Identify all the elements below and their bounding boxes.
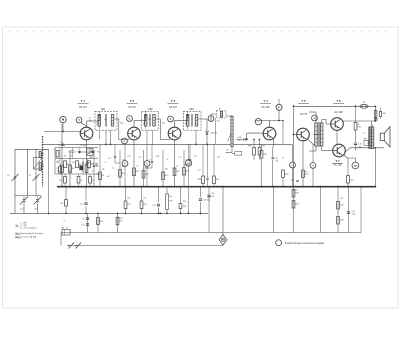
svg-text:C14: C14 (122, 160, 125, 162)
svg-text:470: 470 (305, 172, 308, 174)
wire output top rail (294, 105, 376, 107)
variable capacitor C1a (20, 197, 28, 211)
svg-text:R29: R29 (261, 145, 265, 147)
wire C28 to T4 base (246, 133, 264, 140)
svg-text:T 1: T 1 (81, 99, 86, 103)
svg-text:AF 127: AF 127 (79, 106, 87, 109)
svg-text:Tensioni rilevate in assenza d: Tensioni rilevate in assenza di segnale (285, 242, 325, 245)
label T4 (260, 99, 271, 109)
IF transformer FE1 (95, 109, 117, 130)
svg-text:B9: B9 (363, 102, 365, 104)
wire pot wiper to C28 (236, 138, 243, 140)
resistor R17 (142, 171, 149, 179)
svg-text:C2: C2 (60, 142, 62, 144)
resistor R31 (260, 144, 267, 186)
wire E1 stub (124, 144, 126, 186)
capacitor C22 (184, 144, 191, 165)
resistor R39 (292, 201, 299, 209)
wire T3 emitter (174, 140, 176, 187)
wire x125 stub2 (125, 186, 127, 214)
test point H1 (290, 162, 296, 168)
svg-text:C25: C25 (217, 121, 220, 123)
wire T3 collector to FE3 (175, 114, 188, 128)
svg-text:R28: R28 (248, 145, 252, 147)
oscillator box L4 (87, 149, 94, 156)
capacitor C11 electrolytic (80, 203, 88, 206)
resistor R9 (99, 172, 105, 180)
test point E1 (122, 161, 128, 167)
capacitor C28 (238, 137, 246, 142)
wire L5 sec bottom to T7 (322, 146, 333, 151)
volume pot R24 (227, 117, 234, 152)
battery meter diamond (219, 235, 227, 245)
svg-text:R36: R36 (305, 174, 309, 176)
mixer text b (57, 171, 94, 173)
svg-text:L7: L7 (363, 133, 365, 135)
test point F1 (276, 104, 282, 110)
wire x86 stub2 (85, 187, 87, 214)
transistor T4 (263, 127, 276, 140)
wire x104 drop (99, 130, 107, 145)
svg-text:T 2: T 2 (130, 99, 135, 103)
capacitor C34 (291, 180, 299, 182)
svg-text:C34: C34 (291, 180, 294, 182)
svg-text:GB: GB (354, 165, 358, 167)
svg-text:1k8: 1k8 (119, 218, 122, 220)
resistor R12 (119, 170, 126, 178)
svg-text:R48: R48 (340, 220, 343, 222)
svg-text:5k6: 5k6 (127, 198, 130, 200)
svg-text:10k: 10k (169, 196, 172, 198)
wire x120 drop (119, 150, 121, 187)
svg-text:1n: 1n (92, 171, 94, 173)
resistor R47 (347, 168, 354, 187)
svg-text:C9: C9 (87, 150, 89, 152)
test point H2 (310, 163, 316, 169)
resistor R10b (97, 218, 104, 225)
oscillator coil L3 box (34, 158, 43, 170)
capacitor C24 (206, 144, 208, 186)
svg-text:R10: R10 (100, 221, 103, 223)
svg-text:R20: R20 (169, 201, 172, 203)
resistor R3 (64, 161, 70, 168)
label m1 (64, 220, 66, 222)
svg-text:FE1: FE1 (101, 109, 106, 111)
wire x338 drop2 (337, 186, 339, 233)
wire x117 drop2 (117, 213, 119, 232)
test point GB (352, 162, 359, 169)
wire x361 drop2 (360, 187, 362, 233)
svg-text:G: G (313, 116, 315, 120)
wire supply line A (61, 232, 361, 234)
wire coil taps (42, 154, 45, 187)
legend band I (21, 222, 27, 224)
svg-text:C4 180p: C4 180p (58, 145, 65, 147)
speaker LS (380, 127, 390, 147)
svg-text:C10: C10 (81, 225, 84, 227)
resistor R38 (292, 190, 299, 198)
trimmer capacitor C1 (7, 174, 19, 181)
wire x163 drop (162, 150, 164, 187)
svg-text:R19: R19 (165, 175, 168, 177)
svg-text:R4: R4 (72, 168, 74, 170)
resistor R41 (354, 105, 361, 141)
IF transformer FE2 (142, 109, 159, 130)
svg-text:0,1: 0,1 (186, 160, 189, 162)
resistor R29 (258, 139, 265, 160)
test point B1 (76, 117, 82, 123)
transistor T2 (128, 127, 141, 140)
resistor R48 (337, 217, 344, 225)
svg-text:B: B (129, 116, 131, 120)
svg-text:39k: 39k (56, 162, 59, 164)
wire mixer left (54, 148, 56, 175)
test point E2 (144, 161, 150, 167)
wire gang cap legs (15, 196, 38, 214)
svg-text:330: 330 (165, 169, 168, 171)
resistor R16 (140, 201, 147, 209)
wire T6 collector (343, 120, 376, 126)
resistor R19 (162, 172, 169, 180)
wire x215 drop (215, 118, 217, 144)
svg-text:R39: R39 (295, 204, 298, 206)
wire AGC rail (10, 212, 208, 214)
svg-text:C15: C15 (138, 157, 141, 159)
svg-text:2k2: 2k2 (143, 198, 146, 200)
svg-text:R46: R46 (340, 205, 343, 207)
svg-text:II - MO: II - MO (21, 225, 28, 227)
resistor R25 (198, 144, 205, 186)
wire F1 drop (278, 99, 280, 121)
wire FL link (211, 114, 232, 122)
scan texture dotted row (8, 31, 390, 33)
wire FE2 out to T3 (159, 119, 171, 140)
wire x94 drop (93, 150, 95, 187)
svg-text:R43: R43 (383, 113, 386, 115)
svg-text:R12: R12 (122, 173, 125, 175)
wire T5 collector (307, 139, 315, 145)
resistor R44 box (364, 139, 369, 146)
resistor R33 (282, 170, 289, 187)
svg-text:C3: C3 (74, 151, 76, 153)
wire L5 primary top (309, 112, 316, 123)
svg-text:GA 100: GA 100 (211, 131, 219, 134)
svg-text:82k: 82k (186, 164, 189, 166)
wire x158 stub2 (158, 187, 160, 215)
svg-text:4n7: 4n7 (198, 170, 201, 172)
svg-text:AC 125: AC 125 (262, 106, 271, 109)
svg-text:R7: R7 (88, 168, 90, 170)
resistor R1 (54, 149, 59, 157)
svg-text:R30: R30 (183, 206, 186, 208)
svg-text:R23: R23 (186, 171, 189, 173)
svg-text:R15: R15 (136, 171, 139, 173)
wire T4 collector (255, 121, 283, 128)
svg-text:H: H (312, 163, 314, 167)
capacitor C40 (354, 143, 362, 151)
resistor R8b (60, 200, 67, 207)
svg-text:9-4: 9-4 (87, 153, 90, 155)
svg-text:C11: C11 (80, 203, 83, 205)
wire T1 collector to FE1 (87, 114, 100, 128)
mixer text c (57, 157, 93, 163)
svg-text:8k2: 8k2 (145, 167, 148, 169)
svg-text:1k: 1k (92, 180, 94, 182)
svg-text:R16: R16 (143, 204, 146, 206)
legend TA1 (15, 232, 43, 235)
wire diode down (206, 134, 208, 145)
value text row (56, 118, 362, 220)
wire audio rail (42, 143, 292, 145)
svg-text:C1b: C1b (34, 209, 38, 211)
transistor T3 (168, 127, 181, 140)
label T5 (298, 99, 309, 116)
legend Bd (16, 225, 28, 227)
driver transformer L5 (315, 122, 323, 147)
svg-text:C16: C16 (148, 119, 151, 121)
wire x180 stub2 (180, 187, 182, 215)
svg-text:C41: C41 (211, 196, 214, 198)
resistor R21 (173, 168, 180, 176)
wire x209 stub2 (208, 186, 210, 233)
mixer value text1 (58, 145, 65, 147)
wire T6 emitter join (336, 130, 338, 144)
svg-text:C13: C13 (108, 158, 111, 160)
svg-text:AC 128: AC 128 (335, 111, 344, 114)
capacitor C41 electrolytic (207, 195, 214, 198)
wire x87 drop2 (87, 213, 89, 232)
svg-text:R44: R44 (364, 139, 367, 141)
capacitor C3 (71, 151, 76, 154)
label T3 (168, 99, 179, 109)
wire ground bus (57, 186, 376, 188)
svg-text:R26: R26 (216, 179, 219, 181)
capacitor C40b electrolytic (199, 199, 210, 202)
svg-text:1k: 1k (176, 166, 178, 168)
capacitor C50 electrolytic (347, 211, 356, 216)
wire M stub (62, 123, 64, 133)
wire speaker bottom (374, 106, 376, 121)
svg-text:1k: 1k (282, 158, 284, 160)
wire gang cap top (15, 195, 41, 197)
wire x143 drop (143, 150, 145, 187)
wire lineA tick (60, 233, 62, 246)
transistor T1 (80, 127, 93, 140)
svg-text:C23: C23 (194, 156, 197, 158)
test point B3 (168, 116, 174, 122)
svg-text:R13: R13 (127, 204, 130, 206)
test point M (60, 116, 66, 122)
wire x200 stub2 (200, 187, 202, 215)
label T2 (127, 99, 138, 109)
svg-text:R38: R38 (295, 193, 298, 195)
svg-text:2k: 2k (80, 180, 82, 182)
svg-text:C11: C11 (104, 119, 107, 121)
wire x320 drop2 (320, 186, 322, 233)
resistor R28 (248, 139, 255, 160)
svg-text:30p: 30p (120, 123, 123, 125)
AGC wire dots (65, 213, 201, 215)
svg-text:100u: 100u (352, 214, 356, 216)
svg-text:1k: 1k (136, 166, 138, 168)
svg-text:R47: R47 (350, 179, 354, 181)
wire x66 stub2 (65, 186, 67, 214)
svg-text:T 3: T 3 (171, 99, 176, 103)
wire transformer to bus (375, 147, 377, 188)
svg-text:R31: R31 (263, 154, 267, 156)
svg-text:T 4: T 4 (263, 99, 268, 103)
svg-text:R8: R8 (60, 203, 62, 205)
wire x62 drop (61, 124, 63, 187)
wire battery line B (67, 245, 222, 247)
svg-text:R21: R21 (176, 171, 179, 173)
bus junction dots (61, 186, 375, 188)
test point V1 (208, 116, 214, 122)
svg-text:1n: 1n (105, 162, 107, 164)
svg-text:C10: C10 (96, 174, 99, 176)
svg-text:R9: R9 (102, 175, 104, 177)
svg-text:18p: 18p (89, 120, 92, 122)
wire speaker top (372, 125, 374, 128)
resistor R5b (77, 174, 82, 187)
IF transformer FE3 (184, 109, 202, 130)
svg-text:560: 560 (88, 163, 91, 165)
wire x273 drop2 (273, 186, 275, 233)
svg-text:C6: C6 (92, 163, 94, 165)
svg-text:T 5: T 5 (301, 99, 306, 103)
wire mixer row3 (55, 173, 100, 175)
resistor R46 (337, 202, 344, 210)
resistor R23 (183, 168, 190, 176)
wire x223 vertical (222, 186, 224, 235)
wire D1 stub (188, 144, 190, 186)
antenna coil L2 (39, 163, 41, 171)
wire diamond to lineB (222, 244, 223, 247)
capacitor C2b (60, 142, 63, 146)
capacitor C7b (86, 159, 88, 169)
resistor R13 (124, 201, 131, 209)
transistor T7 (333, 144, 346, 157)
resistor R1b (59, 159, 62, 175)
wire B1 to T1 (81, 123, 92, 131)
svg-text:C5 30p: C5 30p (80, 145, 86, 147)
wire rail end down (375, 106, 377, 122)
wire mixer v1 (60, 148, 90, 159)
svg-text:56k: 56k (81, 171, 84, 173)
svg-text:III - Pil.os Switch: III - Pil.os Switch (21, 227, 38, 230)
wire pot bottom (226, 115, 233, 153)
wire osc feed (48, 149, 50, 214)
capacitor C6 (92, 163, 97, 165)
wire GB stub (348, 158, 355, 162)
resistor R11 (116, 217, 122, 225)
svg-text:R3: R3 (67, 164, 69, 166)
svg-text:B: B (170, 117, 172, 121)
svg-text:4k7: 4k7 (107, 176, 110, 178)
transistor T6 (331, 118, 344, 131)
svg-text:5k: 5k (227, 150, 229, 152)
wire x70 drop (69, 150, 71, 187)
capacitor C12 (114, 144, 120, 163)
svg-text:T 6: T 6 (336, 99, 341, 103)
svg-text:82: 82 (357, 124, 359, 126)
wire FE3 out to diode (201, 119, 207, 130)
capacitor C31 (272, 147, 279, 187)
svg-text:C9: C9 (82, 219, 84, 221)
capacitor C9 electrolytic (81, 218, 89, 227)
svg-text:3k3: 3k3 (57, 171, 60, 173)
wire T2 collector to FE2 (134, 114, 146, 128)
svg-text:T 7: T 7 (335, 159, 340, 163)
trimmer capacitor C2 (28, 174, 39, 181)
resistor R30 (179, 204, 186, 209)
resistor R20 tall (166, 194, 173, 210)
svg-text:68: 68 (295, 190, 297, 192)
label T7 (332, 159, 343, 166)
wire x141 stub2 (141, 186, 143, 214)
legend band III (21, 227, 38, 230)
transistor T5 (297, 128, 310, 141)
wire x100 drop (99, 144, 101, 186)
wire H2 stub (312, 144, 314, 186)
svg-text:R14: R14 (128, 156, 131, 158)
resistor R6b (89, 174, 94, 187)
capacitor C19 electrolytic (152, 204, 160, 207)
svg-text:E: E (146, 161, 148, 165)
detector coil FL box (217, 109, 227, 119)
wire mixer tap row (78, 150, 95, 155)
svg-text:R33: R33 (285, 174, 289, 176)
mixer value text2 (80, 145, 86, 147)
test point A1 (122, 138, 128, 144)
svg-text:C20: C20 (179, 157, 182, 159)
wire L5 sec top to T6 (322, 120, 331, 125)
footnote circle (276, 240, 282, 246)
label H8 (66, 227, 68, 229)
switch S1 (68, 243, 81, 249)
svg-text:5n: 5n (167, 159, 169, 161)
test point B2 (127, 116, 133, 122)
svg-text:2n: 2n (112, 168, 114, 170)
output transformer L7 (363, 127, 373, 149)
resistor R26 (213, 144, 220, 186)
wire H1 stub (292, 144, 294, 186)
test point U1 (255, 119, 261, 125)
svg-text:0,1: 0,1 (149, 160, 152, 162)
wire T5 base (294, 134, 297, 136)
wire mixer row2 (55, 158, 98, 160)
resistor R7 (85, 165, 91, 173)
svg-text:AF 127: AF 127 (128, 106, 136, 109)
svg-text:FE2: FE2 (149, 109, 154, 111)
wire T7 emitter (344, 155, 348, 168)
svg-text:B: B (78, 118, 80, 122)
svg-text:R8: R8 (97, 152, 99, 154)
svg-text:R31: R31 (183, 201, 186, 203)
svg-text:TA2: TA2 (61, 227, 64, 230)
wire tuner mid (27, 149, 29, 195)
footnote text (285, 242, 325, 245)
wire trimmer C2 stub (35, 149, 37, 195)
wire T5 emitter (302, 141, 304, 187)
wire x110 drop (110, 130, 112, 145)
svg-text:50u: 50u (276, 160, 279, 162)
svg-text:100u: 100u (358, 146, 362, 148)
wire T2 emitter (133, 140, 135, 187)
wire FE1 out to T2 (117, 119, 130, 140)
wire mixer row1 (55, 147, 98, 149)
wire T4 emitter (273, 139, 275, 148)
